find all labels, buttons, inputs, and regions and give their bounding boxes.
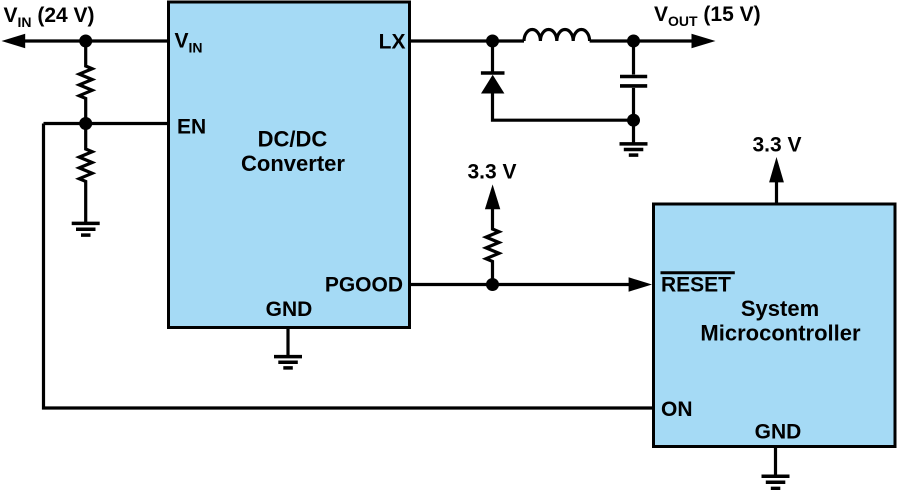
svg-text:RESET: RESET xyxy=(661,274,731,297)
wire EN pin xyxy=(44,122,169,125)
svg-text:System: System xyxy=(741,296,819,321)
junction EN node xyxy=(79,117,92,130)
svg-text:ON: ON xyxy=(661,398,693,421)
junction inductor / C1 xyxy=(627,35,640,48)
block DC/DC Converter xyxy=(169,2,410,328)
svg-text:LX: LX xyxy=(379,31,406,54)
arrow VIN off-page left xyxy=(2,34,26,48)
supply 3.3V arrow (MCU) xyxy=(769,157,784,204)
svg-text:DC/DC: DC/DC xyxy=(258,127,328,152)
svg-text:GND: GND xyxy=(266,298,313,321)
wire LX output xyxy=(410,39,525,42)
svg-text:Converter: Converter xyxy=(241,151,345,176)
supply 3.3V arrow (pullup) xyxy=(485,184,500,209)
arrow VOUT off-page right xyxy=(692,34,716,48)
junction PGOOD / R3 xyxy=(486,278,499,291)
capacitor C1 xyxy=(620,41,647,120)
ground (output filter) xyxy=(620,120,648,155)
resistor R2 (bottom of EN divider) xyxy=(79,124,92,223)
wire VIN input xyxy=(22,39,169,42)
resistor R3 (PGOOD pullup) xyxy=(486,207,499,285)
svg-text:3.3 V: 3.3 V xyxy=(468,161,517,184)
junction LX / diode xyxy=(486,35,499,48)
ground (MCU GND pin) xyxy=(762,447,790,489)
resistor R1 (top of EN divider) xyxy=(79,41,92,124)
junction C1 / ground rail xyxy=(627,114,640,127)
block System Microcontroller xyxy=(654,204,896,447)
svg-text:EN: EN xyxy=(177,116,206,139)
svg-text:VIN (24 V): VIN (24 V) xyxy=(4,4,95,30)
ground (EN divider) xyxy=(72,223,100,235)
wire PGOOD to RESET xyxy=(410,283,631,286)
arrow into RESET xyxy=(629,277,652,291)
svg-text:GND: GND xyxy=(755,421,802,444)
inductor L1 xyxy=(524,29,590,41)
svg-text:3.3 V: 3.3 V xyxy=(753,134,802,157)
wire inductor to VOUT xyxy=(590,39,693,42)
ground (DC/DC GND pin) xyxy=(274,328,302,368)
svg-text:PGOOD: PGOOD xyxy=(325,274,403,297)
wire diode to ground rail xyxy=(493,93,634,120)
svg-text:Microcontroller: Microcontroller xyxy=(700,321,861,346)
diode D1 xyxy=(481,41,505,94)
junction VIN / R1 xyxy=(79,35,92,48)
wire EN to ON (left and bottom route) xyxy=(44,124,654,409)
svg-text:VOUT (15 V): VOUT (15 V) xyxy=(654,3,761,29)
